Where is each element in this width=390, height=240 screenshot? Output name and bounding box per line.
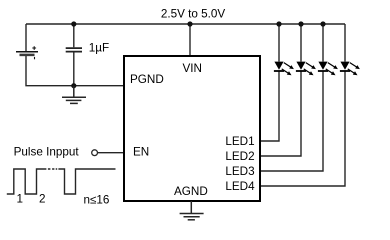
svg-text:Pulse Inpput: Pulse Inpput bbox=[14, 146, 80, 159]
svg-text:LED2: LED2 bbox=[225, 150, 254, 163]
svg-text:AGND: AGND bbox=[174, 185, 208, 198]
svg-text:VIN: VIN bbox=[182, 62, 201, 75]
svg-text:1: 1 bbox=[17, 193, 24, 206]
svg-text:PGND: PGND bbox=[130, 73, 164, 86]
svg-text:LED1: LED1 bbox=[225, 135, 254, 148]
svg-text:2: 2 bbox=[39, 193, 46, 206]
svg-text:LED4: LED4 bbox=[225, 180, 255, 193]
svg-text:LED3: LED3 bbox=[225, 165, 254, 178]
svg-text:1µF: 1µF bbox=[89, 42, 109, 55]
svg-text:EN: EN bbox=[133, 146, 149, 159]
svg-text:2.5V to 5.0V: 2.5V to 5.0V bbox=[161, 8, 226, 21]
svg-text:n≤16: n≤16 bbox=[84, 194, 110, 207]
